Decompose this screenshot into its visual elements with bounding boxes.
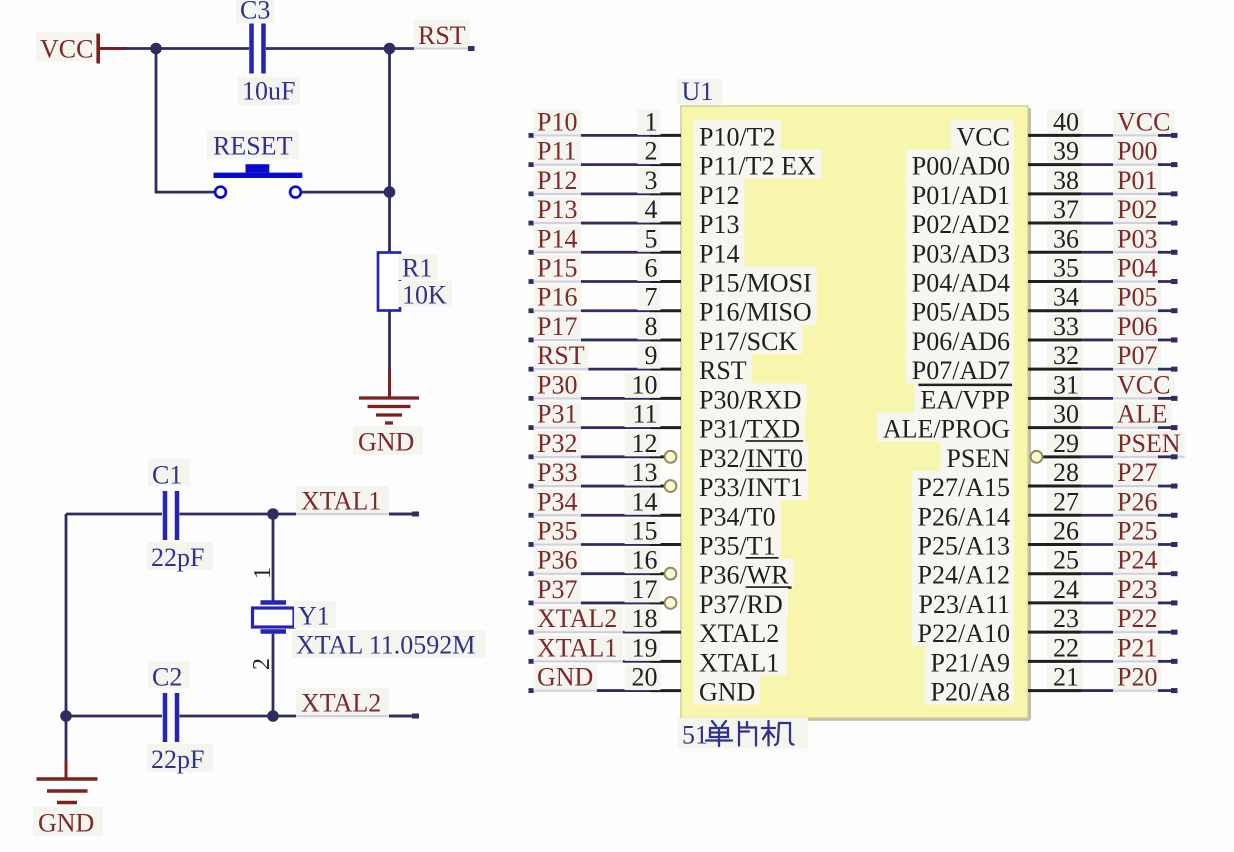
designator C3 (236, 0, 274, 25)
svg-text:P31: P31 (537, 400, 577, 429)
svg-text:21: 21 (1053, 663, 1079, 692)
value 22pF (C2) (147, 744, 213, 774)
svg-text:P26: P26 (1117, 487, 1157, 516)
svg-text:P36: P36 (537, 546, 577, 575)
svg-text:GND: GND (358, 428, 414, 457)
pin 29 PSEN / net PSEN (940, 429, 1184, 473)
pin 5 P14 / net P14 (529, 224, 745, 268)
node junction VCC/RESET (150, 43, 162, 55)
svg-text:2: 2 (249, 658, 275, 670)
svg-text:9: 9 (645, 341, 658, 370)
svg-text:P03/AD3: P03/AD3 (912, 239, 1010, 268)
svg-text:P16: P16 (537, 283, 577, 312)
svg-text:P01: P01 (1117, 166, 1157, 195)
wire RST node to net label (390, 47, 469, 50)
pin 28 P27/A15 / net P27 (912, 458, 1178, 502)
svg-text:15: 15 (632, 516, 658, 545)
svg-text:P24: P24 (1117, 546, 1157, 575)
pin 37 P02/AD2 / net P02 (906, 195, 1178, 239)
svg-text:P05/AD5: P05/AD5 (912, 298, 1010, 327)
pin 31 EA/VPP / net VCC (914, 370, 1177, 414)
pin 24 P23/A11 / net P23 (912, 575, 1178, 619)
svg-text:29: 29 (1053, 429, 1079, 458)
svg-text:P37: P37 (537, 575, 577, 604)
svg-text:P30/RXD: P30/RXD (699, 385, 802, 414)
net label GND (crystal) (33, 807, 103, 838)
svg-text:EA/VPP: EA/VPP (920, 385, 1010, 414)
svg-text:25: 25 (1053, 546, 1079, 575)
svg-text:30: 30 (1053, 400, 1079, 429)
pin 1 P10/T2 / net P10 (529, 107, 781, 151)
pin 20 GND / net GND (529, 663, 761, 707)
svg-text:31: 31 (1053, 370, 1079, 399)
svg-text:P34: P34 (537, 487, 577, 516)
net label GND (reset) (353, 426, 423, 457)
svg-text:8: 8 (645, 312, 658, 341)
svg-text:P21: P21 (1117, 633, 1157, 662)
svg-text:P35: P35 (537, 516, 577, 545)
net label RST (414, 20, 475, 51)
svg-text:RESET: RESET (213, 132, 293, 161)
pin 38 P01/AD1 / net P01 (906, 166, 1178, 210)
svg-text:28: 28 (1053, 458, 1079, 487)
svg-text:P33: P33 (537, 458, 577, 487)
net label XTAL2 (296, 688, 419, 719)
pin 36 P03/AD3 / net P03 (906, 224, 1178, 268)
svg-text:P23/A11: P23/A11 (919, 590, 1011, 619)
svg-text:P03: P03 (1117, 224, 1157, 253)
svg-text:P22: P22 (1117, 604, 1157, 633)
svg-text:P07: P07 (1117, 341, 1157, 370)
svg-text:1: 1 (250, 567, 276, 579)
svg-text:P07/AD7: P07/AD7 (912, 356, 1010, 385)
pin 9 RST / net RST (529, 341, 752, 385)
svg-text:P13: P13 (699, 210, 739, 239)
svg-text:11: 11 (632, 400, 657, 429)
svg-text:P24/A12: P24/A12 (918, 561, 1010, 590)
svg-text:34: 34 (1053, 283, 1079, 312)
svg-text:VCC: VCC (40, 35, 93, 64)
pin 39 P00/AD0 / net P00 (906, 137, 1178, 181)
svg-text:GND: GND (537, 663, 593, 692)
pin 40 VCC / net VCC (951, 107, 1178, 151)
svg-text:P35/T1: P35/T1 (699, 531, 776, 560)
value 22pF (C1) (147, 542, 213, 572)
power port VCC (36, 32, 126, 64)
svg-text:PSEN: PSEN (1117, 429, 1181, 458)
svg-text:P27: P27 (1117, 458, 1157, 487)
svg-text:23: 23 (1053, 604, 1079, 633)
pin 35 P04/AD4 / net P04 (906, 254, 1178, 298)
svg-text:GND: GND (699, 678, 755, 707)
wire bus to C2 (66, 715, 162, 718)
pin 13 P33/INT1 / net P33 (529, 458, 809, 502)
wire C3 to RST node (266, 47, 390, 50)
resistor R1 (378, 253, 400, 311)
svg-text:P23: P23 (1117, 575, 1157, 604)
designator R1 (398, 254, 438, 283)
designator C1 (148, 459, 190, 490)
svg-text:P32/INT0: P32/INT0 (699, 444, 803, 473)
svg-text:14: 14 (632, 487, 658, 516)
pin 3 P12 / net P12 (529, 166, 745, 210)
svg-text:P05: P05 (1117, 283, 1157, 312)
wire VCC to C3 (124, 47, 249, 50)
pin 33 P06/AD6 / net P06 (906, 312, 1178, 356)
pin 14 P34/T0 / net P34 (529, 487, 781, 531)
svg-text:VCC: VCC (1117, 107, 1170, 136)
svg-text:35: 35 (1053, 254, 1079, 283)
pin 21 P20/A8 / net P20 (925, 663, 1178, 707)
svg-text:P11: P11 (537, 137, 577, 166)
svg-text:XTAL2: XTAL2 (301, 689, 381, 718)
pin 22 P21/A9 / net P21 (925, 633, 1178, 677)
svg-text:P17: P17 (537, 312, 577, 341)
pin 2 P11/T2 EX / net P11 (529, 137, 822, 181)
pin 26 P25/A13 / net P25 (912, 516, 1178, 560)
value 10uF (238, 77, 300, 106)
node junction RST (384, 43, 396, 55)
svg-text:22: 22 (1053, 633, 1079, 662)
designator C2 (148, 661, 190, 692)
svg-text:P30: P30 (537, 370, 577, 399)
svg-text:12: 12 (632, 429, 658, 458)
svg-text:P17/SCK: P17/SCK (699, 327, 797, 356)
IC U1 body (51 MCU) (681, 106, 1030, 719)
svg-text:R1: R1 (402, 254, 432, 283)
pin 7 P16/MISO / net P16 (529, 283, 817, 327)
pin 32 P07/AD7 / net P07 (906, 341, 1178, 385)
capacitor C2 (165, 693, 177, 742)
svg-text:VCC: VCC (1117, 370, 1170, 399)
svg-text:P21/A9: P21/A9 (931, 648, 1010, 677)
pin 23 P22/A10 / net P22 (912, 604, 1178, 648)
svg-text:P22/A10: P22/A10 (918, 619, 1010, 648)
svg-text:33: 33 (1053, 312, 1079, 341)
svg-text:C1: C1 (152, 461, 182, 490)
wire R1 to ground (388, 311, 391, 398)
svg-text:P31/TXD: P31/TXD (699, 415, 800, 444)
svg-text:5: 5 (645, 224, 658, 253)
IC name 51 danpianji (678, 718, 808, 750)
svg-text:24: 24 (1053, 575, 1079, 604)
svg-text:22pF: 22pF (151, 745, 204, 774)
svg-text:P04: P04 (1117, 254, 1157, 283)
crystal Y1 (253, 603, 295, 632)
svg-text:P02: P02 (1117, 195, 1157, 224)
svg-text:RST: RST (699, 356, 747, 385)
pin 30 ALE/PROG / net ALE (877, 400, 1178, 444)
pin 12 P32/INT0 / net P32 (529, 429, 809, 473)
wire XTAL1 node down to Y1 (272, 514, 275, 601)
pin 17 P37/RD / net P37 (529, 575, 788, 619)
svg-text:P10: P10 (537, 107, 577, 136)
wire down to R1 (388, 49, 391, 253)
svg-text:P00/AD0: P00/AD0 (912, 152, 1010, 181)
svg-text:37: 37 (1053, 195, 1079, 224)
svg-text:P00: P00 (1117, 137, 1157, 166)
wire junction down to reset switch (156, 49, 215, 194)
svg-text:51: 51 (682, 721, 708, 750)
svg-text:P02/AD2: P02/AD2 (912, 210, 1010, 239)
svg-text:P34/T0: P34/T0 (699, 502, 776, 531)
wire Y1 down to XTAL2 (272, 634, 275, 716)
ground symbol (crystal) (37, 779, 98, 803)
pin 8 P17/SCK / net P17 (529, 312, 803, 356)
svg-text:22pF: 22pF (151, 543, 204, 572)
pin 10 P30/RXD / net P30 (529, 370, 807, 414)
svg-text:XTAL1: XTAL1 (699, 648, 779, 677)
designator Y1 (294, 601, 336, 631)
switch RESET (207, 131, 302, 198)
svg-text:P20: P20 (1117, 663, 1157, 692)
svg-text:10: 10 (632, 370, 658, 399)
capacitor C1 (165, 491, 177, 540)
wire C2 to XTAL2 (180, 715, 414, 718)
pin 18 XTAL2 / net XTAL2 (529, 604, 787, 648)
node junction switch/R1 (384, 186, 396, 198)
svg-text:P06: P06 (1117, 312, 1157, 341)
svg-text:P20/A8: P20/A8 (931, 678, 1010, 707)
svg-text:P25: P25 (1117, 516, 1157, 545)
svg-text:13: 13 (632, 458, 658, 487)
svg-text:P12: P12 (699, 181, 739, 210)
svg-text:XTAL1: XTAL1 (301, 487, 381, 516)
svg-text:P27/A15: P27/A15 (918, 473, 1010, 502)
ground symbol (reset) (359, 398, 419, 423)
svg-text:XTAL1: XTAL1 (537, 633, 617, 662)
svg-text:XTAL2: XTAL2 (699, 619, 779, 648)
svg-text:17: 17 (632, 575, 658, 604)
pin 34 P05/AD5 / net P05 (906, 283, 1178, 327)
value 10K (398, 281, 452, 310)
svg-text:1: 1 (645, 107, 658, 136)
svg-text:P12: P12 (537, 166, 577, 195)
svg-text:36: 36 (1053, 224, 1079, 253)
svg-text:39: 39 (1053, 137, 1079, 166)
svg-text:P15/MOSI: P15/MOSI (699, 269, 812, 298)
node junction XTAL1 (267, 508, 279, 520)
svg-text:Y1: Y1 (298, 602, 330, 631)
svg-text:P14: P14 (699, 239, 739, 268)
svg-text:38: 38 (1053, 166, 1079, 195)
svg-text:P26/A14: P26/A14 (918, 502, 1010, 531)
svg-text:C3: C3 (240, 0, 270, 25)
designator U1 (677, 77, 722, 106)
value XTAL 11.0592M (292, 630, 486, 660)
svg-text:P16/MISO: P16/MISO (699, 298, 812, 327)
svg-text:P37/RD: P37/RD (699, 590, 783, 619)
svg-text:32: 32 (1053, 341, 1079, 370)
svg-text:C2: C2 (152, 663, 182, 692)
svg-text:16: 16 (632, 546, 658, 575)
capacitor C3 (252, 24, 264, 74)
svg-text:7: 7 (645, 283, 658, 312)
svg-text:P04/AD4: P04/AD4 (912, 269, 1010, 298)
svg-text:10K: 10K (402, 281, 447, 310)
svg-text:3: 3 (645, 166, 658, 195)
svg-text:XTAL2: XTAL2 (537, 604, 617, 633)
pin 19 XTAL1 / net XTAL1 (529, 633, 787, 677)
node junction bus/C2 (60, 710, 72, 722)
svg-text:2: 2 (645, 137, 658, 166)
svg-text:P32: P32 (537, 429, 577, 458)
svg-text:P25/A13: P25/A13 (918, 531, 1010, 560)
svg-text:10uF: 10uF (242, 77, 295, 106)
svg-text:19: 19 (632, 633, 658, 662)
svg-text:20: 20 (632, 663, 658, 692)
svg-text:4: 4 (645, 195, 658, 224)
svg-text:U1: U1 (682, 77, 714, 106)
pin 27 P26/A14 / net P26 (912, 487, 1178, 531)
svg-text:ALE: ALE (1117, 400, 1168, 429)
svg-text:P36/WR: P36/WR (699, 561, 789, 590)
node junction XTAL2 (267, 710, 279, 722)
svg-text:GND: GND (38, 809, 94, 838)
svg-text:RST: RST (537, 341, 585, 370)
svg-text:P11/T2 EX: P11/T2 EX (699, 152, 816, 181)
svg-text:6: 6 (645, 254, 658, 283)
svg-text:VCC: VCC (957, 122, 1010, 151)
svg-text:ALE/PROG: ALE/PROG (883, 415, 1010, 444)
svg-text:P14: P14 (537, 224, 577, 253)
wire switch to R1 node (301, 191, 390, 194)
svg-text:P10/T2: P10/T2 (699, 122, 776, 151)
svg-text:27: 27 (1053, 487, 1079, 516)
svg-text:P01/AD1: P01/AD1 (912, 181, 1010, 210)
wire C1 to XTAL1 (180, 513, 414, 516)
svg-text:P06/AD6: P06/AD6 (912, 327, 1010, 356)
svg-text:P33/INT1: P33/INT1 (699, 473, 803, 502)
svg-text:P15: P15 (537, 254, 577, 283)
pin 16 P36/WR / net P36 (529, 546, 794, 590)
svg-text:18: 18 (632, 604, 658, 633)
pin 11 P31/TXD / net P31 (529, 400, 806, 444)
pin 4 P13 / net P13 (529, 195, 745, 239)
pin 6 P15/MOSI / net P15 (529, 254, 817, 298)
svg-text:RST: RST (418, 21, 466, 50)
pin 25 P24/A12 / net P24 (912, 546, 1178, 590)
wire left bus (crystal) (66, 514, 162, 778)
net label XTAL1 (296, 486, 419, 517)
svg-text:40: 40 (1053, 107, 1079, 136)
svg-text:26: 26 (1053, 516, 1079, 545)
svg-text:XTAL 11.0592M: XTAL 11.0592M (296, 631, 475, 660)
svg-text:P13: P13 (537, 195, 577, 224)
svg-text:PSEN: PSEN (946, 444, 1010, 473)
pin 15 P35/T1 / net P35 (529, 516, 781, 560)
